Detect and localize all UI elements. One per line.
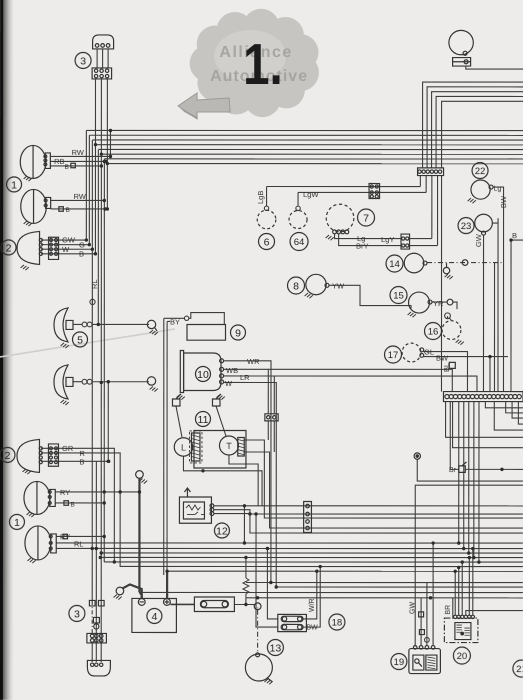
wire connector down — [267, 421, 269, 440]
svg-text:GR: GR — [62, 444, 74, 453]
wire cluster feed right A — [244, 440, 523, 518]
svg-text:RL: RL — [74, 539, 84, 548]
svg-text:G: G — [79, 240, 85, 249]
wire GL from 17 — [423, 352, 467, 392]
wire strip drop 8 — [446, 402, 523, 438]
wire B lamp1a — [50, 165, 101, 167]
svg-text:19: 19 — [394, 657, 405, 668]
switch 8 — [306, 274, 326, 294]
horn 9 box — [187, 324, 226, 340]
connector block below plug — [92, 68, 112, 79]
wire ignition to right edge — [466, 66, 523, 69]
wire fuse tap run — [450, 468, 459, 470]
svg-text:15: 15 — [393, 290, 404, 301]
wire dash-dot from 14 — [427, 262, 502, 264]
wire strip drop 13 — [478, 402, 480, 563]
wire left channel w2 — [95, 461, 97, 662]
fuse block 18 — [278, 614, 307, 631]
wire BW from 17 — [423, 356, 508, 358]
battery negative terminal — [138, 599, 145, 606]
connector block lamp2b — [48, 444, 58, 466]
svg-text:4: 4 — [151, 611, 157, 623]
wire RW lamp1b — [51, 199, 105, 201]
connector block lamp2 — [49, 237, 59, 259]
small L connector — [419, 630, 424, 635]
svg-text:RW: RW — [72, 148, 85, 157]
wire bottom bus 5 — [104, 561, 523, 563]
terminal mid — [414, 453, 420, 459]
circled label 6 — [259, 233, 275, 249]
svg-text:RY: RY — [60, 488, 70, 497]
wire RY lamp1d — [56, 535, 104, 537]
circled label 5 — [73, 332, 88, 347]
svg-text:21: 21 — [516, 664, 523, 675]
wire connector up H — [267, 369, 269, 414]
circled label 8 — [288, 277, 305, 294]
circled label 4 — [147, 608, 162, 623]
headlamp bulb 1b — [24, 221, 32, 226]
wire main bus line 4 — [95, 144, 523, 146]
wire from plug pin 2 — [102, 49, 104, 68]
wire fuse2 right BW — [303, 567, 320, 628]
svg-text:64: 64 — [294, 237, 305, 248]
bullet on B wire 1c — [64, 501, 69, 506]
breaker terminal mid — [257, 607, 259, 609]
tail lamp dome 2 — [17, 231, 40, 264]
connector block on LgB/LgW — [369, 184, 380, 199]
circled label 10 — [195, 366, 210, 381]
svg-text:WB: WB — [226, 366, 238, 375]
connector 4way mid — [304, 502, 312, 533]
wire lamp5a with bullets — [73, 323, 82, 325]
position lamp 5a — [54, 308, 68, 342]
svg-text:BW: BW — [306, 625, 318, 632]
wire strip drop 11 — [468, 402, 470, 553]
wire pin to BrY — [437, 176, 439, 246]
connector block LgY — [401, 234, 410, 249]
wire plug pin3 down — [106, 79, 108, 164]
wire battery ground strap — [122, 584, 141, 598]
connector block right bus — [418, 168, 444, 176]
wire from plug pin 3 — [107, 49, 109, 68]
svg-text:YR: YR — [433, 299, 444, 308]
svg-text:LgB: LgB — [256, 191, 265, 204]
circled label 14 — [386, 255, 403, 272]
main fuse — [194, 597, 234, 612]
wire bus8 drop — [106, 164, 108, 209]
svg-text:LgW: LgW — [303, 190, 319, 199]
svg-text:W: W — [62, 245, 70, 254]
wire bus1 drop to GW — [85, 130, 87, 240]
scan left edge shadow — [0, 0, 14, 700]
circled label 2 — [1, 240, 16, 255]
wire short vertical RW junction — [109, 130, 111, 156]
inline connector on 19 wire — [419, 612, 424, 617]
wire fuse1 right WR — [303, 571, 317, 619]
wire BrY continue — [410, 245, 438, 247]
wire W lamp2 — [41, 248, 92, 250]
watermark arrow — [178, 93, 230, 119]
wire battery negative cable — [138, 478, 140, 592]
wire main bus line 1 — [86, 129, 523, 131]
svg-text:13: 13 — [270, 642, 282, 654]
wire bottom bus 4 — [101, 552, 523, 554]
wire W from 10 — [223, 382, 276, 587]
starter cable terminal — [254, 603, 261, 610]
switch 14 — [404, 253, 424, 273]
resistor coil beside L (dashed box) — [191, 433, 200, 461]
svg-text:LgY: LgY — [381, 235, 394, 244]
wire main bus line 5 — [98, 148, 523, 150]
wire fuse to starter terminal — [234, 603, 254, 605]
wire RY lamp1c — [55, 491, 139, 493]
connector plug bottom — [87, 660, 110, 676]
svg-text:17: 17 — [388, 350, 399, 361]
ignition coil 19 — [409, 649, 441, 674]
screw terminal right 5b — [147, 377, 155, 385]
wire WR from 10 — [223, 361, 271, 583]
svg-text:T: T — [226, 441, 232, 451]
wire gauge L bottom — [183, 456, 262, 505]
ignition switch circle — [449, 30, 473, 54]
battery positive terminal — [164, 599, 171, 606]
wire GR lamp2b — [41, 448, 114, 562]
wire bottom bus 6 (battery feed) — [167, 570, 523, 572]
junction dots — [85, 238, 88, 241]
wire main bus line 2 — [89, 134, 523, 136]
svg-text:3: 3 — [80, 55, 86, 67]
svg-text:16: 16 — [428, 326, 439, 337]
terminal on dash-dot — [462, 260, 468, 266]
svg-text:W/R: W/R — [309, 598, 316, 612]
wire main bus line 3 — [92, 139, 523, 141]
switch 15 — [409, 292, 430, 313]
svg-text:BR: BR — [445, 605, 452, 615]
svg-text:B: B — [65, 164, 69, 171]
wire cross line C — [140, 591, 523, 593]
wire vertical right channel a — [489, 357, 491, 392]
svg-text:B: B — [79, 249, 84, 258]
svg-text:2: 2 — [6, 242, 12, 254]
terminal YR — [447, 299, 453, 305]
wire Lg from speedo — [335, 234, 402, 239]
svg-text:1: 1 — [14, 517, 20, 529]
svg-text:LR: LR — [240, 373, 250, 382]
terminal stub B — [92, 298, 94, 305]
wire strip drop 4 — [518, 402, 523, 425]
svg-text:23: 23 — [461, 221, 472, 232]
wire drop to lamp5a junction — [97, 149, 99, 324]
svg-text:9: 9 — [235, 327, 241, 339]
wire GW lamp2 — [41, 239, 86, 241]
wire from right edge to 20 — [466, 611, 523, 616]
watermark big 1. — [243, 33, 283, 98]
wire LgW — [298, 191, 426, 193]
svg-text:RY: RY — [60, 532, 70, 541]
fuse tap symbol mid right — [459, 466, 466, 473]
svg-text:18: 18 — [332, 617, 343, 628]
ignition switch base box — [453, 58, 471, 67]
headlamp bulb 1c — [27, 512, 35, 517]
horn relay 10 — [180, 350, 183, 392]
gauge T — [219, 436, 238, 455]
pilot lamp 22 — [471, 180, 490, 199]
wire LR from 10 — [223, 376, 477, 392]
wire WB from 10 — [223, 369, 452, 391]
bullet connector on B wire 1a — [71, 163, 76, 168]
switch 16 (dashed) — [442, 321, 461, 340]
wire resistor riser — [245, 594, 247, 605]
wire junction 5b drop — [107, 382, 109, 462]
connector small right of cluster — [265, 414, 278, 421]
wire B lamp2 — [41, 253, 95, 255]
wire bus3 long drop left channel — [91, 140, 93, 601]
connector block bottom — [87, 633, 107, 643]
wire left channel w1 to plug — [91, 601, 93, 634]
flasher relay 12 — [179, 497, 211, 523]
watermark cloud — [190, 9, 319, 117]
svg-text:3: 3 — [74, 608, 80, 620]
wire bus6 long drop left channel — [100, 154, 102, 601]
wire BrY from speedo — [339, 234, 401, 246]
ground symbol at battery — [116, 587, 124, 595]
svg-text:6: 6 — [264, 236, 270, 248]
wire to 19 pin4 — [432, 543, 434, 646]
circled label 19 — [391, 654, 407, 670]
svg-text:BW: BW — [436, 354, 449, 363]
svg-text:BY: BY — [170, 317, 180, 326]
circled label 1 — [9, 514, 24, 529]
position lamp 5b — [54, 365, 68, 399]
wire GW from 23 — [482, 235, 484, 391]
wire B lamp1b — [51, 208, 105, 210]
wire pin to Lg — [431, 176, 433, 239]
svg-text:GL: GL — [424, 348, 434, 357]
wire to 19 pin3 — [426, 583, 428, 646]
wire right feed line 4 — [436, 96, 523, 167]
circled label 3 — [69, 605, 85, 621]
wire strip drop to fuse tap — [449, 402, 451, 470]
gauge L — [174, 438, 192, 456]
pilot lamp 23 — [475, 214, 493, 232]
circled label 22 — [472, 163, 488, 179]
starter motor 13 — [245, 654, 272, 681]
wire from plug pin 1 — [96, 49, 98, 68]
main multi-pin connector strip — [443, 392, 523, 402]
battery 4 box — [132, 598, 177, 632]
wire lamp5b with bullets — [73, 381, 82, 383]
circled label 15 — [390, 287, 407, 304]
indicator lamp 64 (dashed) — [289, 211, 307, 229]
screw terminal right 5a — [147, 320, 155, 328]
svg-text:W: W — [225, 379, 233, 388]
svg-text:5: 5 — [77, 334, 83, 346]
wire GW riser to 19 — [415, 485, 523, 646]
wire cross line A — [246, 581, 523, 583]
svg-text:BrY: BrY — [356, 242, 369, 251]
wire strip drop 12 — [473, 402, 475, 558]
wire battery positive cable up — [166, 571, 168, 598]
wire flasher pin2 — [214, 510, 523, 514]
headlamp bulb 1d — [28, 558, 36, 563]
svg-text:12: 12 — [216, 525, 228, 537]
circled label 13 — [267, 640, 283, 656]
wire junction drop mid — [243, 506, 245, 543]
wire fuse1 left — [267, 549, 277, 619]
wire B lamp1c — [55, 502, 104, 504]
wire starter dash-dot — [257, 610, 259, 654]
wire B lamp2b — [41, 460, 109, 462]
wire Lg from 22 — [493, 187, 504, 392]
wire B lamp1d — [56, 547, 92, 549]
wire main bus line 7 — [104, 158, 523, 160]
svg-text:B: B — [70, 501, 74, 508]
inline connector mid — [93, 617, 99, 623]
wire BY loop to horn 9 — [164, 317, 184, 319]
wire cross line D — [246, 597, 523, 599]
wire BY pair elbow — [167, 320, 170, 322]
svg-text:1: 1 — [11, 179, 17, 191]
wire bottom bus 3 — [100, 556, 523, 558]
wire main bus line 6 — [101, 153, 523, 155]
wire fuse2 left — [256, 514, 278, 627]
wire BY vertical pair down — [163, 318, 165, 575]
wire LgB — [267, 186, 421, 188]
wire R lamp2b — [41, 453, 523, 567]
wire bottom bus 2 — [92, 547, 523, 549]
svg-text:B: B — [512, 231, 517, 240]
bullet on RY wire 1d — [63, 534, 68, 539]
wire battery positive to fuse — [170, 603, 194, 605]
svg-text:8: 8 — [293, 280, 299, 292]
svg-text:BL: BL — [442, 363, 451, 372]
inline connector on WB/BL wire — [449, 362, 455, 368]
svg-text:1.: 1. — [243, 33, 283, 98]
wire bus2 drop to G — [88, 135, 90, 244]
svg-text:11: 11 — [198, 414, 209, 426]
wire strip drop 2 — [506, 402, 523, 413]
svg-text:B: B — [79, 457, 84, 466]
svg-text:20: 20 — [457, 651, 468, 662]
wire strip drop 3 — [512, 402, 523, 419]
svg-text:2: 2 — [5, 450, 11, 462]
regulator 20 outer (dash-dot) — [444, 618, 478, 643]
wire vertical right channel b — [493, 263, 495, 392]
circled label 21 — [513, 660, 523, 677]
svg-text:BW: BW — [499, 195, 508, 208]
ground stub under dash-dot — [443, 267, 449, 273]
switch 17 (dashed) — [402, 343, 421, 362]
headlamp bulb 1a — [24, 176, 32, 181]
connector plug top (handlebar switch) — [93, 35, 114, 49]
inline connectors small — [89, 600, 95, 606]
wire RW lamp1a — [50, 155, 110, 157]
circled label 16 — [425, 323, 442, 340]
circled label 3 — [75, 52, 91, 68]
fuse tap symbol right of 10 — [212, 399, 220, 406]
svg-text:GW: GW — [409, 602, 416, 614]
wire right feed line 2 — [427, 87, 523, 168]
indicator lamp 6 (dashed) — [257, 210, 276, 229]
wire right feed line 5 — [442, 101, 523, 168]
circled label 64 — [290, 233, 308, 251]
speedometer lamp 7 (dashed) — [326, 204, 354, 232]
svg-text:14: 14 — [389, 259, 400, 270]
wire bus7 long drop left channel — [103, 159, 105, 562]
circled label 1 — [7, 177, 22, 192]
wire 15 to 16 — [453, 302, 457, 309]
wire plug pin1 down — [94, 79, 96, 145]
wire to 19 pin2 — [420, 598, 422, 646]
tail lamp dome 2b — [17, 439, 40, 472]
svg-text:WR: WR — [247, 357, 260, 366]
ground symbol upper (frame) — [136, 471, 144, 479]
circled label 17 — [384, 346, 401, 363]
svg-text:RL: RL — [90, 279, 99, 289]
svg-text:RB: RB — [54, 157, 64, 166]
svg-text:10: 10 — [197, 369, 209, 381]
wire flasher pin3 — [214, 514, 523, 534]
svg-text:RW: RW — [74, 192, 87, 201]
svg-text:22: 22 — [475, 166, 486, 177]
circled label 11 — [195, 411, 210, 426]
wire vertical right channel d — [510, 240, 512, 392]
wire gauge T bottom — [229, 455, 258, 506]
svg-text:7: 7 — [363, 212, 369, 224]
wire YR from 15 — [432, 301, 447, 303]
svg-text:Lg: Lg — [494, 186, 502, 193]
wire strip drop 10 — [463, 402, 465, 549]
svg-text:YW: YW — [332, 282, 345, 291]
circled label 18 — [329, 614, 345, 630]
regulator 20 inner — [455, 623, 471, 640]
wire vertical right channel c — [497, 218, 499, 391]
wire fuse to gauge T — [216, 406, 226, 436]
wire RL lamp1d (bottom bus line 1) — [56, 542, 523, 544]
wire strip drop 1 — [485, 402, 523, 408]
circled label 20 — [453, 647, 470, 664]
wire cluster feed right B — [244, 452, 523, 528]
fuse tap symbol left of 10 — [172, 399, 180, 406]
svg-text:L: L — [181, 442, 186, 452]
flasher arrow up — [184, 488, 190, 497]
svg-text:B: B — [66, 207, 70, 214]
svg-text:Br: Br — [449, 467, 457, 474]
wire left channel w3 — [100, 601, 102, 662]
cluster frame box — [194, 430, 246, 468]
regulator 20 pins — [454, 615, 457, 618]
wire plug pin2 down — [100, 79, 102, 154]
circled label 9 — [231, 325, 246, 340]
circled label 12 — [214, 523, 229, 538]
wire pin down to strip — [440, 176, 442, 392]
wire RB lamp1a — [50, 160, 106, 162]
coil beside T — [238, 437, 245, 456]
wire right feed line 3 — [432, 92, 523, 168]
scan crease (faint) — [0, 329, 175, 357]
circled label 7 — [358, 209, 375, 226]
wire strip drop 6 — [453, 402, 523, 448]
wire main bus line 8 — [107, 163, 523, 165]
wire bus4 drop to B — [94, 145, 96, 254]
wire terminal mid drop — [417, 459, 523, 481]
wire cross line B — [276, 586, 523, 588]
wire strip drop 9 — [458, 402, 460, 543]
wire right feed line 1 — [423, 82, 523, 168]
circled label 23 — [458, 218, 474, 234]
wire Lg continue — [410, 238, 432, 240]
wire flasher pin1 — [214, 505, 523, 507]
